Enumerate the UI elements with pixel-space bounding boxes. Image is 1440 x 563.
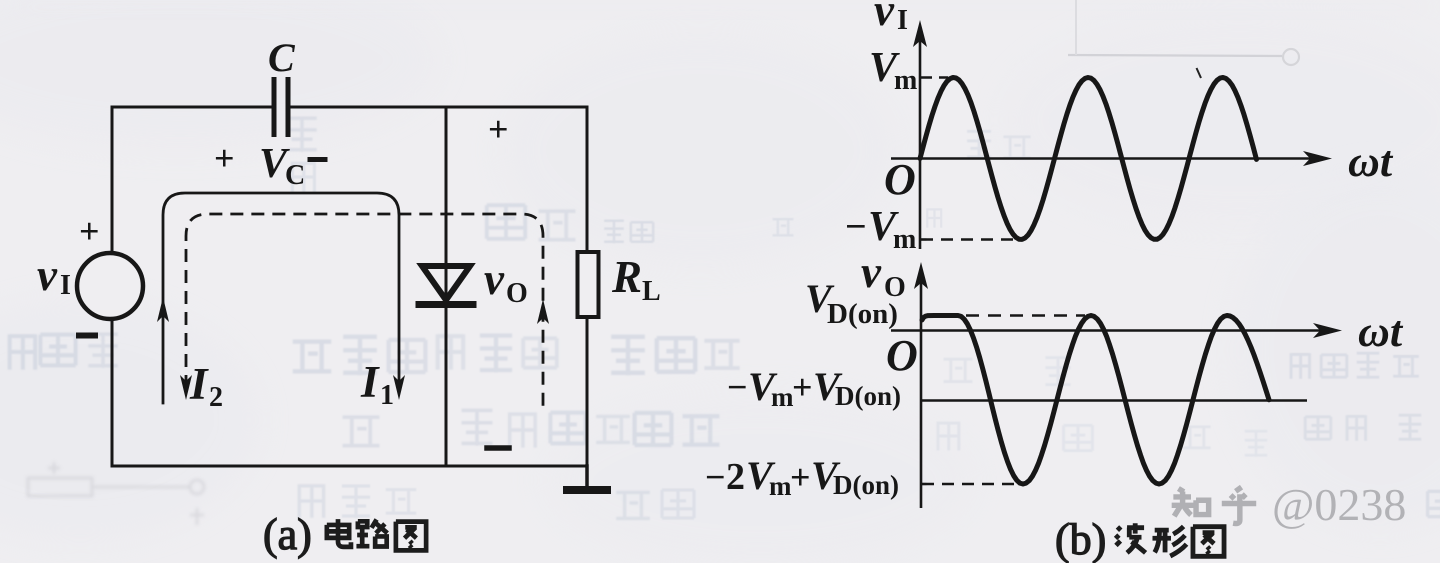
axis wt arrowhead (graph a) — [1303, 151, 1332, 166]
loop I1 arrowhead up (left side) — [157, 297, 169, 322]
capacitor C plates — [272, 77, 277, 137]
svg-text:2: 2 — [726, 456, 745, 498]
faint bleed vertical — [1075, 0, 1077, 55]
caption char bo — [1116, 523, 1146, 553]
dashed level minus 2Vm plus VD(on) — [922, 483, 1020, 486]
svg-text:I: I — [897, 5, 908, 36]
svg-text:v: v — [874, 0, 895, 35]
faint bleed circle — [1283, 49, 1299, 65]
axis wt horizontal (graph b) — [891, 329, 1322, 332]
svg-text:+: + — [488, 109, 509, 149]
ground stem — [585, 466, 589, 487]
svg-text:L: L — [642, 276, 661, 307]
svg-text:C: C — [285, 160, 305, 191]
dashed level VD(on) top — [966, 314, 1085, 317]
bleed faint caption row mid page — [604, 221, 624, 243]
source polarity minus — [79, 333, 95, 339]
svg-text:1: 1 — [380, 380, 394, 411]
svg-text:C: C — [268, 35, 296, 80]
axis vO arrowhead — [914, 262, 928, 289]
bleed text near VC — [287, 118, 316, 152]
caption char xing — [1152, 526, 1186, 556]
wire top-right — [288, 106, 587, 109]
resistor RL body — [578, 252, 599, 317]
source vI circle — [77, 253, 143, 319]
diode D triangle — [422, 266, 470, 300]
svg-text:m: m — [894, 65, 917, 96]
svg-text:I: I — [360, 357, 380, 407]
caption char tu — [396, 522, 426, 551]
bleed text right of graph b row1 — [1291, 353, 1310, 379]
loop I2 arrowhead down (left side) — [180, 375, 192, 400]
dashed level Vm — [921, 76, 948, 79]
caption char lu — [356, 520, 387, 547]
svg-text:m: m — [769, 471, 792, 501]
svg-text:I: I — [189, 359, 209, 409]
level line minus Vm plus VD(on) — [921, 399, 1307, 402]
svg-text:2: 2 — [209, 382, 223, 413]
loop I1 arrowhead down (right side) — [393, 375, 405, 400]
svg-text:−: − — [845, 206, 867, 248]
wire left — [111, 107, 114, 466]
svg-text:+: + — [79, 211, 100, 251]
bleed text row1 behind circuit — [293, 342, 331, 372]
diode cathode bar — [419, 301, 473, 308]
bleed text row2 — [343, 417, 380, 446]
svg-text:−: − — [705, 457, 726, 497]
caption char dian — [327, 519, 351, 547]
svg-text:+: + — [214, 138, 235, 178]
caption char tu2 — [1193, 527, 1224, 557]
svg-text:@0238: @0238 — [1272, 479, 1406, 530]
svg-text:O: O — [884, 155, 916, 204]
axis vI vertical — [919, 40, 922, 249]
output polarity minus — [487, 445, 509, 451]
bleed text right of graph b row2 — [1305, 417, 1331, 439]
wire bottom — [112, 465, 587, 468]
svg-text:m: m — [771, 382, 794, 412]
axis wt horizontal (graph a) — [891, 157, 1312, 160]
clamped output wave — [922, 316, 1269, 485]
bleed text in graph a — [967, 131, 991, 158]
faint bleed line top right — [1068, 55, 1282, 56]
bleed marks under graph b — [944, 359, 973, 381]
watermark char hu — [1222, 487, 1256, 523]
sine wave vI — [920, 78, 1257, 240]
bleed text row1 left edge — [10, 334, 36, 369]
svg-text:D(on): D(on) — [827, 298, 898, 330]
svg-text:I: I — [60, 270, 71, 301]
svg-text:+: + — [790, 457, 811, 497]
loop I2 arrowhead up (right side) — [537, 299, 549, 324]
svg-text:v: v — [37, 250, 58, 300]
svg-text:D(on): D(on) — [835, 381, 901, 411]
wire middle branch — [445, 107, 448, 466]
svg-text:O: O — [506, 278, 528, 309]
capacitor polarity minus — [310, 157, 325, 162]
axis vI arrowhead — [913, 20, 927, 47]
bleed char right edge — [1428, 491, 1440, 516]
axis vO vertical — [920, 282, 923, 508]
svg-text:R: R — [611, 252, 642, 302]
current loop I2 dashed — [186, 214, 543, 413]
svg-text:m: m — [893, 224, 916, 255]
svg-text:v: v — [484, 254, 505, 304]
bleed text bottom fragments — [299, 484, 323, 518]
wire top-left — [112, 106, 273, 109]
bleed text mid circuit — [487, 205, 525, 239]
svg-text:ωt: ωt — [1348, 137, 1394, 186]
wire right branch — [586, 107, 589, 466]
svg-text:−: − — [727, 367, 748, 407]
bleed faint resistor figure bottom left — [28, 462, 204, 525]
stray tick mark — [1197, 68, 1202, 78]
svg-text:(b): (b) — [1055, 515, 1106, 563]
svg-text:ωt: ωt — [1358, 307, 1404, 356]
current loop I1 solid — [163, 193, 399, 403]
ground bar — [563, 486, 611, 494]
svg-text:v: v — [861, 247, 882, 297]
axis wt arrowhead (graph b) — [1313, 323, 1342, 338]
svg-text:+: + — [792, 367, 813, 407]
svg-text:O: O — [886, 331, 918, 380]
svg-text:D(on): D(on) — [833, 470, 899, 500]
watermark char zhi — [1172, 489, 1209, 517]
dashed level minus Vm — [921, 238, 1018, 241]
svg-text:(a): (a) — [263, 510, 312, 559]
